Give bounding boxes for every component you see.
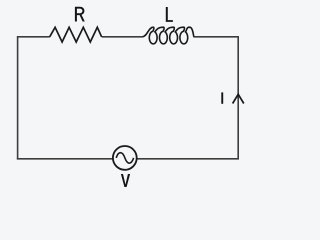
wire left vertical <box>17 36 19 159</box>
wire right vertical <box>237 36 239 159</box>
current arrow head <box>233 94 244 103</box>
label R <box>75 7 85 22</box>
wire top-middle segment <box>102 36 143 38</box>
wire top-right segment <box>193 36 238 38</box>
wire bottom-right segment <box>137 158 239 160</box>
resistor R <box>50 27 102 42</box>
label V <box>121 174 130 187</box>
voltage source V circle <box>113 146 137 170</box>
label L <box>166 7 173 22</box>
label I <box>221 92 223 103</box>
inductor L <box>143 27 194 44</box>
wire bottom-left segment <box>17 158 113 160</box>
sine wave inside source <box>116 153 133 164</box>
wire top-left segment <box>18 36 50 38</box>
